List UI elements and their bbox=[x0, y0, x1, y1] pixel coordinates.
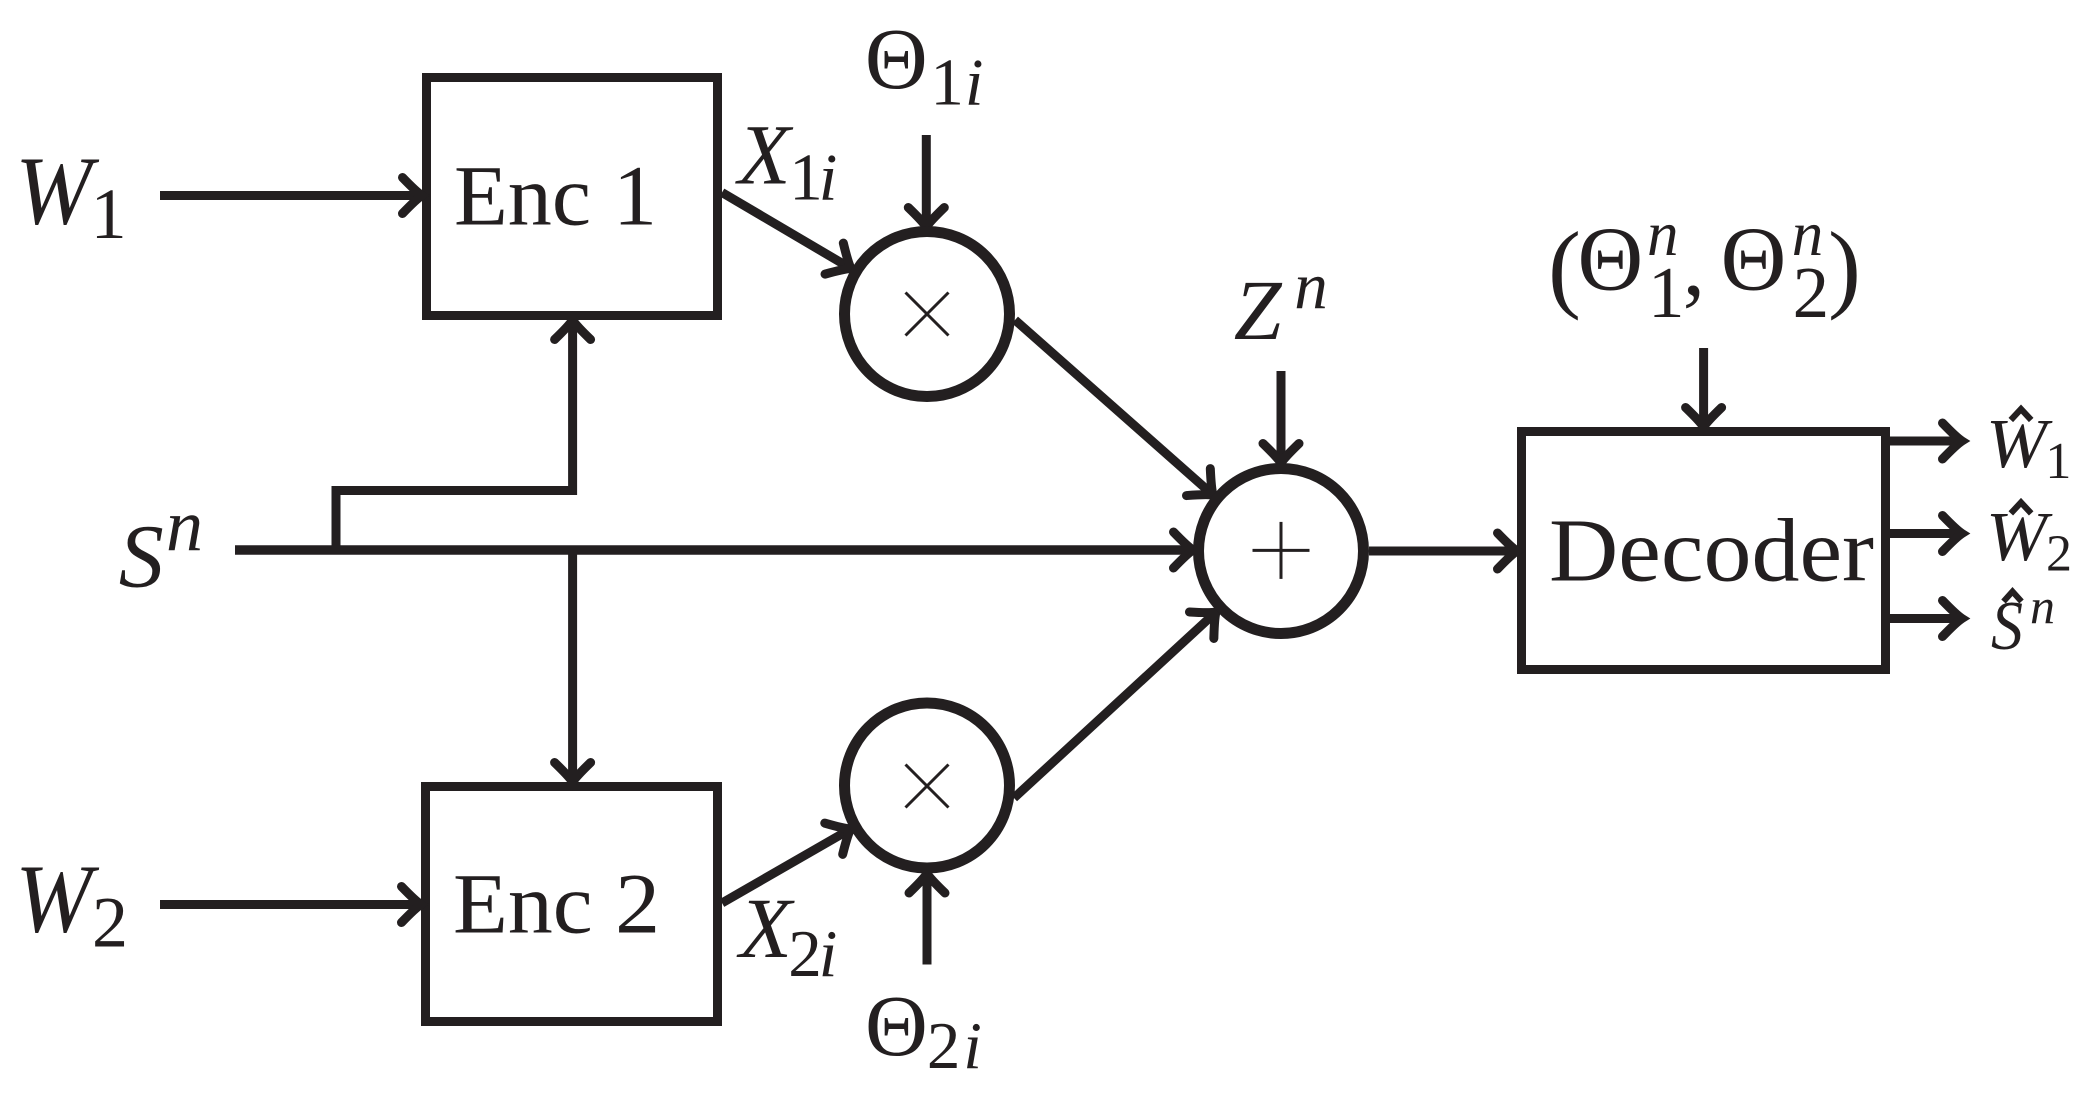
svg-text:S: S bbox=[119, 508, 164, 607]
svg-text:): ) bbox=[1828, 213, 1861, 322]
svg-text:Θ: Θ bbox=[865, 10, 928, 107]
svg-text:1: 1 bbox=[2045, 433, 2071, 490]
svg-text:2: 2 bbox=[92, 882, 128, 962]
svg-text:Θ: Θ bbox=[1578, 209, 1644, 310]
svg-text:W: W bbox=[15, 845, 100, 952]
svg-text:i: i bbox=[819, 917, 838, 991]
svg-text:Enc 1: Enc 1 bbox=[454, 147, 657, 243]
svg-text:n: n bbox=[1294, 249, 1328, 323]
svg-text:n: n bbox=[2030, 578, 2055, 634]
svg-text:1: 1 bbox=[91, 174, 127, 254]
svg-text:2: 2 bbox=[927, 1009, 961, 1083]
svg-text:W: W bbox=[1986, 406, 2053, 483]
svg-text:W: W bbox=[15, 137, 100, 244]
svg-text:Θ: Θ bbox=[865, 977, 928, 1074]
svg-text:1: 1 bbox=[1648, 252, 1685, 333]
svg-text:,: , bbox=[1683, 217, 1705, 315]
svg-text:Decoder: Decoder bbox=[1549, 502, 1874, 601]
svg-text:Enc 2: Enc 2 bbox=[453, 855, 660, 951]
svg-text:i: i bbox=[819, 141, 838, 215]
svg-text:Z: Z bbox=[1234, 262, 1283, 358]
svg-text:Θ: Θ bbox=[1721, 209, 1787, 310]
svg-text:X: X bbox=[736, 880, 795, 976]
svg-text:2: 2 bbox=[1793, 252, 1830, 333]
svg-text:i: i bbox=[965, 46, 984, 120]
svg-text:(: ( bbox=[1548, 213, 1581, 322]
svg-text:i: i bbox=[963, 1009, 982, 1083]
svg-text:X: X bbox=[735, 106, 794, 202]
svg-text:2: 2 bbox=[788, 917, 822, 991]
svg-text:2: 2 bbox=[2046, 526, 2072, 583]
svg-text:n: n bbox=[166, 486, 203, 568]
svg-text:1: 1 bbox=[789, 141, 823, 215]
svg-text:1: 1 bbox=[930, 46, 964, 120]
svg-text:W: W bbox=[1986, 499, 2053, 576]
